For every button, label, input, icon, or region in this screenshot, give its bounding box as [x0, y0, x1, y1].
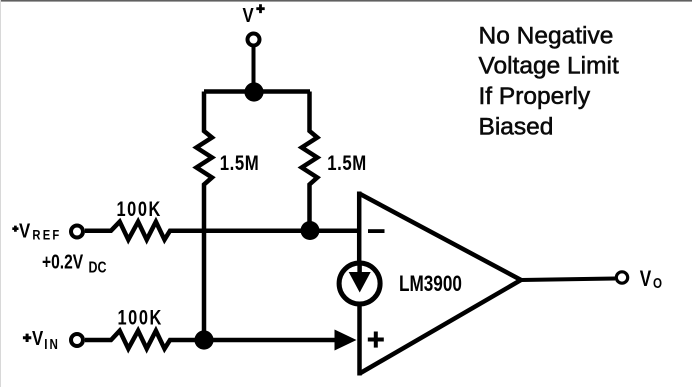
svg-text:V: V: [32, 326, 44, 349]
svg-text:+0.2V: +0.2V: [42, 250, 83, 272]
svg-text:If Properly: If Properly: [479, 83, 591, 110]
svg-text:IN: IN: [44, 336, 60, 353]
svg-text:Biased: Biased: [479, 114, 554, 141]
svg-text:No Negative: No Negative: [479, 22, 614, 49]
svg-text:DC: DC: [89, 259, 107, 277]
svg-text:V: V: [243, 3, 255, 26]
svg-text:100K: 100K: [118, 306, 163, 329]
svg-text:1.5M: 1.5M: [220, 152, 259, 175]
svg-text:100K: 100K: [117, 197, 162, 220]
svg-text:LM3900: LM3900: [399, 272, 462, 297]
svg-text:REF: REF: [32, 227, 61, 242]
svg-text:Voltage Limit: Voltage Limit: [479, 53, 619, 80]
svg-text:O: O: [653, 275, 662, 292]
svg-text:1.5M: 1.5M: [327, 152, 366, 175]
svg-text:V: V: [19, 219, 31, 242]
svg-text:V: V: [640, 267, 652, 292]
